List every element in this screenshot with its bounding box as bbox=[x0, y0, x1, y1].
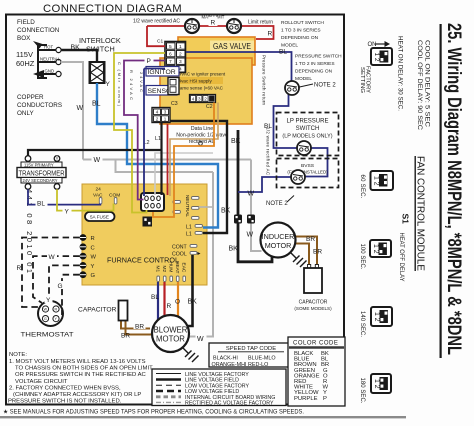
label Y bbox=[45, 295, 53, 304]
bottom page rule bbox=[0, 416, 406, 418]
wire W neutral down bbox=[61, 62, 83, 160]
svg-text:W: W bbox=[44, 307, 48, 311]
svg-text:3: 3 bbox=[164, 110, 167, 115]
svg-text:W: W bbox=[197, 336, 204, 343]
NOTE 2 pointer bbox=[300, 84, 314, 87]
svg-text:CONNECTION DIAGRAM: CONNECTION DIAGRAM bbox=[43, 3, 182, 15]
wire navy pressure switch to LP switch bbox=[274, 94, 298, 148]
svg-text:60HZ: 60HZ bbox=[16, 59, 35, 68]
svg-text:COOL OFF DELAY: 90 SEC: COOL OFF DELAY: 90 SEC bbox=[416, 40, 422, 131]
svg-text:12: 12 bbox=[373, 312, 380, 322]
NEUTRAL terminals bbox=[173, 195, 199, 219]
gas valve block bbox=[178, 37, 255, 65]
svg-text:DEPENDING ON: DEPENDING ON bbox=[281, 35, 319, 41]
data line note bbox=[176, 126, 228, 145]
label W on neutral run bbox=[92, 154, 103, 164]
dip switch 60 sec bbox=[371, 171, 394, 190]
svg-text:COLOR CODE: COLOR CODE bbox=[293, 341, 338, 347]
blower motor bbox=[152, 315, 189, 352]
wire black line voltage L1 transformer feed bbox=[28, 150, 162, 156]
svg-text:12: 12 bbox=[373, 379, 380, 389]
svg-text:1/2 wave rectified AC: 1/2 wave rectified AC bbox=[266, 127, 271, 175]
svg-text:CONNECTION: CONNECTION bbox=[17, 27, 60, 34]
svg-text:12: 12 bbox=[372, 244, 379, 254]
svg-text:HOT: HOT bbox=[44, 45, 53, 50]
interlock switch bbox=[90, 62, 105, 83]
label COPPER CONDUCTORS ONLY bbox=[17, 94, 62, 117]
svg-text:M2: M2 bbox=[161, 266, 167, 273]
wire orange data line bbox=[153, 103, 214, 218]
svg-text:BR: BR bbox=[135, 323, 144, 330]
svg-text:FAN CONTROL MODULE: FAN CONTROL MODULE bbox=[415, 156, 426, 271]
svg-text:Y: Y bbox=[91, 264, 95, 270]
inducer motor bbox=[261, 223, 296, 258]
dip switch 100 sec bbox=[370, 240, 391, 257]
stub into NEUTRAL slot bbox=[199, 206, 213, 208]
svg-text:OR PRESSURE SWITCH IN THE RECT: OR PRESSURE SWITCH IN THE RECTIFIED AC bbox=[15, 372, 147, 378]
svg-text:M1: M1 bbox=[154, 266, 160, 273]
svg-text:24V SECONDARY: 24V SECONDARY bbox=[23, 178, 58, 183]
svg-text:ORANGE-MHI: ORANGE-MHI bbox=[212, 362, 247, 368]
svg-text:LP PRESSURE: LP PRESSURE bbox=[287, 119, 329, 125]
svg-text:BLACK-HI: BLACK-HI bbox=[213, 356, 238, 362]
wire yellow transformer secondary to COM bbox=[57, 189, 114, 210]
dashed thermostat wire G bbox=[62, 275, 80, 315]
svg-text:4: 4 bbox=[156, 110, 159, 115]
svg-text:C: C bbox=[91, 245, 95, 251]
dashed thermostat wire Y bbox=[49, 265, 80, 300]
svg-text:THERMOSTAT: THERMOSTAT bbox=[21, 332, 74, 339]
svg-text:1: 1 bbox=[211, 96, 214, 101]
wire navy BL transformer secondary to 24VAC bbox=[28, 189, 100, 204]
svg-text:4: 4 bbox=[192, 96, 195, 101]
legend box bbox=[152, 369, 286, 407]
svg-text:HEAT: HEAT bbox=[174, 261, 180, 274]
svg-text:1: 1 bbox=[164, 116, 167, 121]
wire orange blower O bbox=[177, 282, 179, 318]
svg-text:BK: BK bbox=[188, 299, 198, 306]
svg-text:(SOME MODELS): (SOME MODELS) bbox=[294, 306, 332, 311]
wire brown blower capacitor bbox=[121, 321, 150, 329]
svg-text:W: W bbox=[49, 254, 56, 261]
svg-text:Pressure Switch return: Pressure Switch return bbox=[262, 55, 267, 106]
dip switch 180 sec bbox=[371, 374, 391, 393]
blower capacitor bbox=[78, 301, 128, 321]
dip switch heat on delay bbox=[371, 48, 392, 65]
svg-text:EAC: EAC bbox=[180, 263, 186, 273]
main limit switch left bbox=[185, 19, 199, 33]
svg-text:C2: C2 bbox=[206, 104, 213, 110]
svg-text:CONT: CONT bbox=[172, 245, 188, 251]
svg-text:W: W bbox=[77, 105, 84, 112]
svg-text:(LP MODELS ONLY): (LP MODELS ONLY) bbox=[282, 134, 332, 140]
wire black L1 to L1 terminal bbox=[170, 121, 227, 233]
connector C3 (2x2) bbox=[152, 108, 170, 123]
svg-text:DEPENDING ON: DEPENDING ON bbox=[295, 69, 333, 75]
LP pressure switch dashed box bbox=[277, 113, 339, 156]
24VAC COM terminals bbox=[93, 187, 120, 205]
field connection box bracket with HOT NEUTRAL GND terminals bbox=[38, 45, 56, 78]
svg-text:Limit return: Limit return bbox=[248, 20, 273, 26]
svg-text:ONLY: ONLY bbox=[17, 110, 34, 117]
svg-text:PRESSURE SWITCH: PRESSURE SWITCH bbox=[295, 54, 342, 60]
wire W down to inducer motor bbox=[251, 160, 262, 252]
main limit switch right bbox=[227, 19, 241, 33]
rollout switch note bbox=[281, 20, 324, 49]
svg-text:R: R bbox=[268, 31, 273, 38]
terminal HOT bbox=[56, 47, 61, 52]
svg-text:BL: BL bbox=[37, 200, 45, 207]
svg-text:C1: C1 bbox=[157, 39, 163, 45]
wire navy BL gas valve pin8 bbox=[144, 69, 165, 197]
wire yellow gas valve pin6 down to board bbox=[114, 53, 165, 213]
svg-text:BL: BL bbox=[279, 49, 287, 56]
svg-text:COOL ON DELAY: 5 SEC: COOL ON DELAY: 5 SEC bbox=[424, 40, 430, 128]
svg-text:Non-periodic 1/2 wave: Non-periodic 1/2 wave bbox=[176, 133, 228, 139]
svg-text:L1: L1 bbox=[186, 232, 192, 238]
svg-text:G: G bbox=[58, 283, 63, 290]
ignition control module block bbox=[160, 58, 252, 124]
inducer capacitor (some models) bbox=[294, 265, 332, 312]
L1 terminals bbox=[186, 225, 203, 238]
svg-text:1 TO 3 IN SERIES: 1 TO 3 IN SERIES bbox=[281, 28, 321, 34]
svg-text:CAPACITOR: CAPACITOR bbox=[299, 300, 328, 306]
svg-text:2. FACTORY CONNECTED WHEN BVSS: 2. FACTORY CONNECTED WHEN BVSS, bbox=[9, 385, 121, 391]
wire BK hot to interlock switch bbox=[61, 50, 97, 62]
wire black inducer feed bbox=[238, 130, 272, 262]
svg-text:1. MOST VOLT METERS WILL READ: 1. MOST VOLT METERS WILL READ 13-16 VOLT… bbox=[9, 359, 146, 365]
wire W neutral column to blower bbox=[190, 172, 214, 337]
svg-text:1: 1 bbox=[179, 44, 182, 50]
svg-text:S1: S1 bbox=[401, 214, 411, 225]
svg-text:3: 3 bbox=[179, 59, 182, 65]
wire L2 gray bbox=[155, 153, 213, 195]
svg-text:Data Line: Data Line bbox=[191, 126, 213, 132]
svg-text:★ SEE MANUALS FOR ADJUSTING SP: ★ SEE MANUALS FOR ADJUSTING SPEED TAPS F… bbox=[3, 409, 304, 416]
ground blower bbox=[182, 347, 199, 362]
svg-text:BR: BR bbox=[306, 236, 315, 243]
svg-text:W: W bbox=[91, 255, 97, 261]
svg-text:PURPLE: PURPLE bbox=[294, 396, 318, 402]
terminal strip R C W Y G bbox=[80, 234, 97, 279]
svg-text:5A FUSE: 5A FUSE bbox=[90, 215, 109, 220]
svg-text:P: P bbox=[323, 396, 327, 402]
svg-text:BL: BL bbox=[92, 101, 101, 108]
svg-text:PRESSURE SWITCH IS NOT INSTALL: PRESSURE SWITCH IS NOT INSTALLED. bbox=[8, 399, 122, 405]
wire navy BL gas valve to pressure switch bbox=[186, 52, 292, 81]
wire red ignition sense down bbox=[167, 124, 169, 195]
svg-text:R: R bbox=[211, 20, 216, 27]
svg-text:TRANSFORMER: TRANSFORMER bbox=[19, 168, 65, 177]
svg-text:COOL: COOL bbox=[172, 252, 187, 258]
label P bbox=[145, 56, 154, 65]
svg-text:BK: BK bbox=[221, 208, 231, 215]
terminal NEUTRAL bbox=[56, 59, 61, 64]
wire tan data line bbox=[170, 103, 218, 197]
CONT COOL terminals bbox=[172, 245, 201, 258]
svg-text:RECTIFIED AC VOLTAGE FACTORY: RECTIFIED AC VOLTAGE FACTORY bbox=[185, 401, 274, 407]
svg-text:RED-LO: RED-LO bbox=[248, 362, 268, 368]
wire black L1 column into board connector bbox=[160, 123, 162, 196]
svg-text:24: 24 bbox=[96, 187, 102, 193]
svg-text:1 TO 2 IN SERIES: 1 TO 2 IN SERIES bbox=[295, 61, 335, 67]
thermostat bbox=[38, 301, 63, 326]
svg-text:60 SEC.: 60 SEC. bbox=[359, 175, 365, 199]
wire navy BVSS return bbox=[238, 177, 291, 192]
label R between limits bbox=[209, 17, 218, 27]
label INTERLOCK SWITCH bbox=[79, 36, 121, 54]
svg-text:R: R bbox=[17, 265, 22, 272]
label 115V 60HZ bbox=[16, 50, 35, 68]
IGNITOR label box bbox=[146, 67, 179, 77]
BVSS dashed box bbox=[277, 159, 339, 188]
svg-text:Y: Y bbox=[106, 81, 111, 88]
label Y bbox=[63, 206, 72, 215]
svg-text:Flame sense |>60 VAC: Flame sense |>60 VAC bbox=[176, 85, 224, 90]
svg-text:W: W bbox=[247, 232, 254, 239]
svg-text:5: 5 bbox=[169, 44, 172, 50]
board input connector (6 pin) bbox=[141, 193, 164, 211]
svg-text:R: R bbox=[55, 307, 58, 311]
transformer 115V PRIMARY / 24V SECONDARY bbox=[17, 156, 66, 190]
SENSOR label box bbox=[146, 86, 177, 96]
svg-text:C (Mtr comm): C (Mtr comm) bbox=[117, 62, 122, 107]
svg-text:FIELD: FIELD bbox=[17, 19, 35, 26]
svg-text:12: 12 bbox=[373, 53, 380, 62]
svg-text:C3: C3 bbox=[171, 101, 178, 107]
svg-text:VOLTAGE CIRCUIT: VOLTAGE CIRCUIT bbox=[15, 379, 68, 385]
svg-text:BLUE-MLO: BLUE-MLO bbox=[248, 356, 276, 362]
svg-text:Y: Y bbox=[65, 208, 70, 215]
arrowhead top of bracket bbox=[33, 41, 43, 49]
svg-text:ROLLOUT SWITCH: ROLLOUT SWITCH bbox=[281, 20, 324, 26]
svg-text:GAS VALVE: GAS VALVE bbox=[213, 42, 251, 51]
svg-text:MOTOR: MOTOR bbox=[156, 335, 185, 344]
dip switch 140 sec bbox=[371, 307, 392, 326]
wire black blower BK bbox=[187, 255, 193, 326]
label G bbox=[56, 281, 65, 290]
svg-text:IGNITOR: IGNITOR bbox=[148, 69, 176, 76]
svg-text:GND: GND bbox=[45, 69, 55, 74]
svg-text:SETTING: SETTING bbox=[359, 67, 365, 93]
svg-text:L1: L1 bbox=[186, 225, 192, 231]
svg-text:NOTE 2: NOTE 2 bbox=[266, 201, 288, 207]
label BR bbox=[134, 322, 146, 331]
transformer primary neutral stub bbox=[56, 156, 58, 160]
svg-text:L1: L1 bbox=[155, 136, 161, 142]
5A FUSE bbox=[85, 212, 115, 221]
furnace control board block bbox=[82, 184, 207, 285]
svg-text:W: W bbox=[94, 157, 101, 164]
svg-text:12: 12 bbox=[373, 176, 380, 186]
dashed thermostat wire R bbox=[22, 238, 80, 308]
svg-text:BR: BR bbox=[121, 333, 130, 340]
svg-text:BR: BR bbox=[313, 249, 322, 256]
wire W horizontal to inducer column bbox=[83, 159, 251, 161]
inline connector on BK wire bbox=[234, 215, 242, 224]
terminal labels bbox=[40, 45, 61, 74]
relay symbol on board bbox=[143, 217, 153, 227]
svg-text:R: R bbox=[167, 303, 172, 310]
svg-text:MODEL: MODEL bbox=[295, 76, 312, 82]
svg-text:HUM: HUM bbox=[167, 262, 173, 273]
svg-text:1/2 wave rectified AC: 1/2 wave rectified AC bbox=[133, 19, 180, 25]
svg-text:25. Wiring Diagram N8MPN/L, *: 25. Wiring Diagram N8MPN/L, *8MPN/L & *8… bbox=[443, 23, 464, 355]
svg-text:CAPACITOR: CAPACITOR bbox=[78, 307, 117, 314]
label W bbox=[47, 252, 57, 261]
label BL bbox=[36, 199, 48, 208]
pressure switch bbox=[285, 81, 299, 95]
svg-text:(CHIMNEY ADAPTER ACCESSORY KIT: (CHIMNEY ADAPTER ACCESSORY KIT) OR LP bbox=[13, 392, 141, 398]
wire blue BL interlock to L1 bbox=[97, 83, 218, 228]
svg-text:6: 6 bbox=[169, 51, 172, 57]
svg-text:BOX: BOX bbox=[17, 35, 31, 42]
wire brown inducer capacitor bbox=[295, 237, 317, 265]
svg-text:O: O bbox=[175, 299, 180, 306]
main diagram border frame bbox=[6, 15, 344, 405]
svg-text:BVSS: BVSS bbox=[301, 163, 315, 169]
pressure switch note bbox=[295, 54, 342, 83]
wire red rectified AC main limit chain bbox=[147, 26, 274, 46]
ground arrow bbox=[33, 70, 44, 78]
wire W branch to neutral terminal column bbox=[116, 160, 214, 173]
svg-text:BL: BL bbox=[151, 294, 159, 301]
svg-text:NEUTRAL: NEUTRAL bbox=[40, 57, 61, 62]
svg-text:180 SEC.: 180 SEC. bbox=[359, 378, 365, 404]
svg-text:CONDUCTORS: CONDUCTORS bbox=[17, 102, 62, 109]
svg-text:BLOWER: BLOWER bbox=[154, 326, 188, 335]
svg-text:TO CHASSIS ON BOTH SIDES OF AN: TO CHASSIS ON BOTH SIDES OF AN OPEN LIMI… bbox=[15, 366, 153, 372]
ignitor 2-pin connector bbox=[168, 78, 179, 95]
label FIELD CONNECTION BOX bbox=[17, 19, 60, 42]
wire purple gas valve pin7 down to board bbox=[124, 61, 165, 200]
connector C2 (4 3 2 1 inline) bbox=[190, 95, 216, 103]
M1 M2 HUM HEAT EAC terminals bbox=[154, 261, 186, 282]
svg-text:G: G bbox=[44, 317, 47, 321]
svg-text:MODEL: MODEL bbox=[281, 43, 298, 49]
svg-text:7: 7 bbox=[169, 59, 172, 65]
connector C1 (gas valve 8-pin) bbox=[157, 39, 186, 73]
svg-text:W: W bbox=[248, 191, 255, 198]
wire navy blower BL bbox=[157, 282, 159, 320]
svg-text:NOTE 2: NOTE 2 bbox=[314, 83, 336, 89]
svg-text:2: 2 bbox=[204, 96, 207, 101]
svg-text:SPEED TAP CODE: SPEED TAP CODE bbox=[226, 346, 276, 352]
svg-text:100 SEC.: 100 SEC. bbox=[359, 244, 365, 270]
NOTE text block bbox=[8, 352, 153, 405]
svg-text:BK: BK bbox=[229, 246, 239, 253]
color code box bbox=[288, 337, 345, 406]
svg-text:2: 2 bbox=[156, 116, 159, 121]
svg-text:NOTE:: NOTE: bbox=[9, 352, 27, 358]
wire red blower R bbox=[163, 282, 165, 317]
svg-text:SWITCH: SWITCH bbox=[296, 126, 320, 132]
svg-text:HEAT OFF DELAY: HEAT OFF DELAY bbox=[398, 233, 405, 282]
dashed thermostat wire W bbox=[33, 256, 80, 303]
svg-text:Y: Y bbox=[46, 297, 51, 304]
terminal GND bbox=[56, 71, 61, 76]
svg-text:COPPER: COPPER bbox=[17, 94, 44, 101]
svg-text:MOTOR: MOTOR bbox=[265, 241, 292, 250]
ground inducer bbox=[290, 252, 307, 267]
svg-text:115V: 115V bbox=[16, 50, 33, 59]
wire navy LP switch to BVSS bbox=[305, 148, 328, 177]
svg-text:P: P bbox=[147, 58, 151, 65]
svg-text:24vac HSI supply: 24vac HSI supply bbox=[176, 78, 212, 83]
svg-text:3: 3 bbox=[198, 96, 201, 101]
svg-text:NEUTRAL: NEUTRAL bbox=[184, 195, 190, 217]
svg-text:R: R bbox=[91, 236, 95, 242]
svg-text:2: 2 bbox=[179, 51, 182, 57]
svg-text:G: G bbox=[91, 273, 96, 279]
svg-text:HEAT ON DELAY: 30 SEC.: HEAT ON DELAY: 30 SEC. bbox=[397, 36, 404, 111]
svg-text:BK: BK bbox=[71, 45, 81, 52]
speed tap code box bbox=[209, 343, 293, 368]
inline connector on W wire bbox=[247, 215, 255, 224]
label W blower bbox=[196, 334, 207, 344]
svg-text:140 SEC.: 140 SEC. bbox=[359, 311, 365, 337]
svg-text:INDUCER: INDUCER bbox=[262, 232, 295, 241]
